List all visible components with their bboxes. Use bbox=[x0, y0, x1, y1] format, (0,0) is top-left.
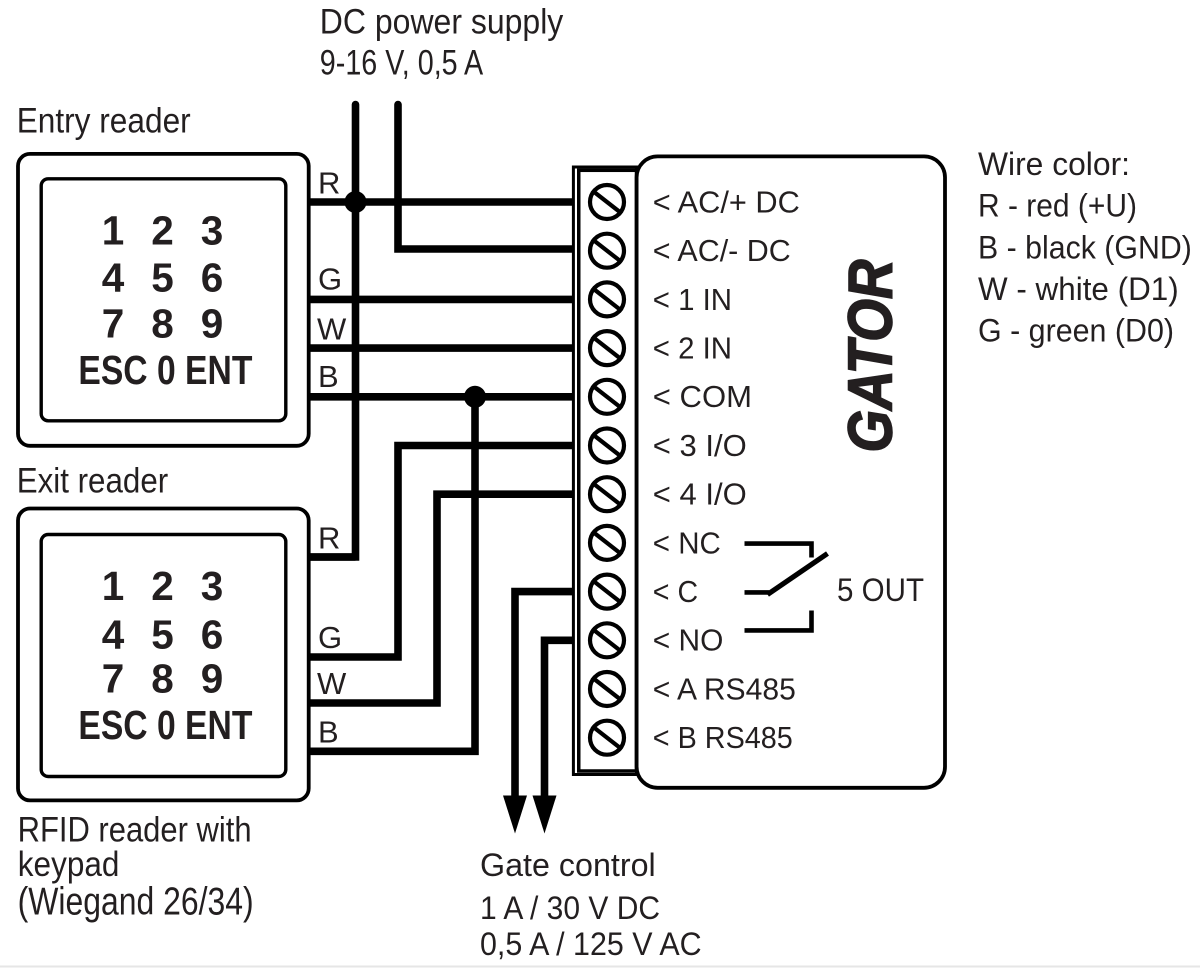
svg-text:< A RS485: < A RS485 bbox=[653, 671, 796, 706]
screw terminal 10 NO bbox=[590, 623, 624, 657]
arrowhead gate wire 2 bbox=[533, 796, 557, 834]
svg-text:1 A / 30 V DC: 1 A / 30 V DC bbox=[480, 890, 660, 926]
GATOR controller box bbox=[637, 156, 945, 787]
svg-text:< B RS485: < B RS485 bbox=[653, 720, 793, 755]
wire exit reader R stub bbox=[308, 553, 356, 561]
relay common line bbox=[745, 590, 770, 595]
svg-text:ESC 0 ENT: ESC 0 ENT bbox=[78, 702, 252, 748]
relay NO contact line bbox=[745, 611, 812, 631]
entry keypad row 4 5 6 bbox=[102, 255, 224, 301]
entry keypad row 7 8 9 bbox=[102, 301, 224, 347]
relay switch blade bbox=[768, 554, 828, 595]
svg-text:W: W bbox=[317, 312, 347, 347]
label Gate control caption bbox=[480, 847, 702, 962]
svg-text:keypad: keypad bbox=[18, 845, 120, 884]
svg-text:GATOR: GATOR bbox=[837, 259, 906, 452]
svg-text:5 OUT: 5 OUT bbox=[837, 572, 924, 608]
wire gate control from NO terminal bbox=[545, 640, 576, 812]
svg-text:9: 9 bbox=[201, 301, 224, 347]
exit keypad row 1 2 3 bbox=[102, 563, 224, 609]
svg-text:G: G bbox=[318, 620, 342, 655]
screw terminal 1 AC/+ DC bbox=[590, 185, 624, 219]
svg-text:(Wiegand 26/34): (Wiegand 26/34) bbox=[18, 880, 254, 923]
svg-text:Gate control: Gate control bbox=[480, 847, 656, 883]
entry reader outer box bbox=[18, 154, 309, 446]
screw terminal 6 3I/O bbox=[590, 429, 624, 463]
screw terminal 9 C bbox=[590, 575, 624, 609]
svg-text:W: W bbox=[317, 666, 347, 701]
exit reader inner box bbox=[41, 535, 286, 777]
svg-text:< NC: < NC bbox=[653, 525, 721, 560]
svg-text:8: 8 bbox=[151, 301, 174, 347]
svg-text:6: 6 bbox=[201, 255, 224, 301]
svg-text:< NO: < NO bbox=[653, 623, 724, 658]
svg-text:R: R bbox=[318, 166, 340, 201]
screw terminal 5 COM bbox=[590, 380, 624, 414]
svg-text:0,5 A / 125 V AC: 0,5 A / 125 V AC bbox=[480, 926, 702, 962]
wire entry reader G to 1 IN terminal bbox=[308, 296, 575, 304]
svg-text:R: R bbox=[318, 521, 340, 556]
screw terminal 2 AC/- DC bbox=[590, 234, 624, 268]
wire power supply positive (R) vertical drop, riser to exit reader R bbox=[308, 105, 356, 558]
wire exit reader W to 4 I/O terminal bbox=[308, 494, 575, 703]
svg-text:R - red (+U): R - red (+U) bbox=[978, 188, 1137, 224]
terminal strip inner body bbox=[579, 170, 637, 771]
screw terminal 11 A RS485 bbox=[590, 672, 624, 706]
svg-text:7: 7 bbox=[102, 301, 125, 347]
svg-text:3: 3 bbox=[201, 563, 224, 609]
label RFID reader caption bbox=[18, 810, 254, 923]
screw terminal 4 2IN bbox=[590, 331, 624, 365]
svg-text:G - green (D0): G - green (D0) bbox=[978, 312, 1174, 348]
junction dot B/COM node bbox=[464, 386, 486, 408]
svg-text:4: 4 bbox=[102, 611, 125, 657]
svg-text:< AC/+ DC: < AC/+ DC bbox=[653, 184, 800, 219]
svg-text:B: B bbox=[318, 359, 339, 394]
label DC power supply bbox=[320, 3, 564, 83]
svg-text:6: 6 bbox=[201, 611, 224, 657]
exit keypad row 7 8 9 bbox=[102, 656, 224, 702]
wire entry reader R to AC/+ DC terminal bbox=[308, 198, 575, 206]
svg-text:Wire color:: Wire color: bbox=[978, 146, 1130, 182]
svg-text:W - white (D1): W - white (D1) bbox=[978, 271, 1179, 307]
svg-text:1: 1 bbox=[102, 563, 125, 609]
svg-text:9: 9 bbox=[201, 656, 224, 702]
screw terminal 7 4I/O bbox=[590, 477, 624, 511]
svg-text:< C: < C bbox=[653, 574, 698, 609]
wire gate control from C terminal bbox=[515, 592, 575, 812]
wire entry reader B to COM terminal bbox=[308, 393, 575, 401]
svg-text:4: 4 bbox=[102, 255, 125, 301]
svg-text:< 2 IN: < 2 IN bbox=[653, 331, 732, 366]
arrowhead gate wire 1 bbox=[503, 796, 527, 834]
junction dot R node bbox=[345, 191, 367, 213]
svg-text:RFID reader with: RFID reader with bbox=[18, 810, 252, 849]
entry reader inner box bbox=[41, 179, 286, 421]
svg-text:2: 2 bbox=[151, 208, 174, 254]
svg-text:5: 5 bbox=[151, 255, 174, 301]
svg-text:DC power supply: DC power supply bbox=[320, 3, 564, 42]
wire entry reader W to 2 IN terminal bbox=[308, 344, 575, 352]
svg-text:G: G bbox=[318, 262, 342, 297]
screw terminal 12 B RS485 bbox=[590, 721, 624, 755]
svg-text:< 3 I/O: < 3 I/O bbox=[653, 428, 747, 463]
svg-text:2: 2 bbox=[151, 563, 174, 609]
screw terminal 3 1IN bbox=[590, 282, 624, 316]
svg-text:3: 3 bbox=[201, 208, 224, 254]
svg-text:Exit reader: Exit reader bbox=[17, 462, 169, 501]
svg-text:ESC 0 ENT: ESC 0 ENT bbox=[78, 347, 252, 393]
entry keypad row 1 2 3 bbox=[102, 208, 224, 254]
svg-text:8: 8 bbox=[151, 656, 174, 702]
svg-text:< COM: < COM bbox=[653, 379, 752, 414]
exit reader outer box bbox=[18, 509, 309, 801]
label Wire color legend bbox=[978, 146, 1192, 348]
svg-text:< 1 IN: < 1 IN bbox=[653, 282, 732, 317]
svg-text:9-16 V, 0,5 A: 9-16 V, 0,5 A bbox=[320, 44, 484, 83]
svg-text:5: 5 bbox=[151, 611, 174, 657]
screw terminal 8 NC bbox=[590, 526, 624, 560]
exit keypad row 4 5 6 bbox=[102, 611, 224, 657]
svg-text:< 4 I/O: < 4 I/O bbox=[653, 477, 747, 512]
svg-text:B - black (GND): B - black (GND) bbox=[978, 229, 1192, 265]
bottom page divider line bbox=[0, 966, 1200, 968]
wire power supply negative to AC/- DC terminal bbox=[398, 105, 575, 250]
wire exit reader B riser to COM junction bbox=[308, 397, 475, 752]
terminal strip outer housing bbox=[573, 167, 636, 775]
svg-text:B: B bbox=[318, 714, 339, 749]
svg-text:1: 1 bbox=[102, 208, 125, 254]
svg-text:7: 7 bbox=[102, 656, 125, 702]
svg-text:Entry reader: Entry reader bbox=[17, 102, 191, 141]
wire exit reader G to 3 I/O terminal bbox=[308, 446, 575, 658]
svg-text:< AC/- DC: < AC/- DC bbox=[653, 233, 791, 268]
relay NC contact line bbox=[745, 544, 812, 558]
